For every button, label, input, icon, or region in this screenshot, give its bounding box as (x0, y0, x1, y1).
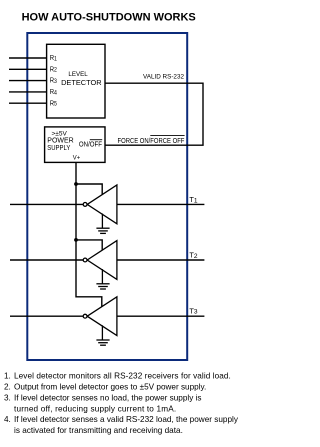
svg-text:turned off, reducing supply cu: turned off, reducing supply current to 1… (14, 404, 176, 413)
svg-text:SUPPLY: SUPPLY (47, 145, 71, 153)
svg-text:HOW AUTO-SHUTDOWN WORKS: HOW AUTO-SHUTDOWN WORKS (22, 11, 196, 23)
svg-text:FORCE ON/FORCE OFF: FORCE ON/FORCE OFF (118, 137, 185, 145)
svg-text:2.: 2. (4, 383, 11, 392)
svg-text:R2: R2 (50, 66, 57, 74)
svg-text:T3: T3 (189, 306, 198, 315)
svg-text:R3: R3 (50, 77, 58, 85)
svg-text:LEVEL: LEVEL (68, 71, 88, 78)
svg-text:Level detector monitors all RS: Level detector monitors all RS-232 recei… (14, 372, 231, 381)
svg-text:T1: T1 (189, 195, 198, 204)
svg-text:V+: V+ (73, 154, 81, 161)
svg-text:3.: 3. (4, 394, 11, 403)
svg-text:R1: R1 (50, 55, 57, 63)
svg-text:Output from level detector goe: Output from level detector goes to ±5V p… (14, 383, 206, 392)
svg-text:R5: R5 (50, 100, 58, 108)
svg-text:DETECTOR: DETECTOR (61, 78, 102, 87)
svg-text:R4: R4 (50, 88, 58, 96)
svg-text:is activated for transmitting: is activated for transmitting and receiv… (14, 426, 183, 435)
svg-text:If level detector senses a val: If level detector senses a valid RS-232 … (14, 415, 239, 424)
svg-text:>±5V: >±5V (52, 131, 68, 138)
svg-text:POWER: POWER (47, 138, 73, 145)
svg-text:T2: T2 (189, 251, 198, 260)
svg-text:ON/OFF: ON/OFF (79, 141, 102, 148)
svg-text:4.: 4. (4, 415, 11, 424)
svg-text:1.: 1. (4, 372, 11, 381)
svg-text:If level detector senses no lo: If level detector senses no load, the po… (14, 394, 202, 403)
svg-text:VALID RS-232: VALID RS-232 (143, 74, 184, 81)
